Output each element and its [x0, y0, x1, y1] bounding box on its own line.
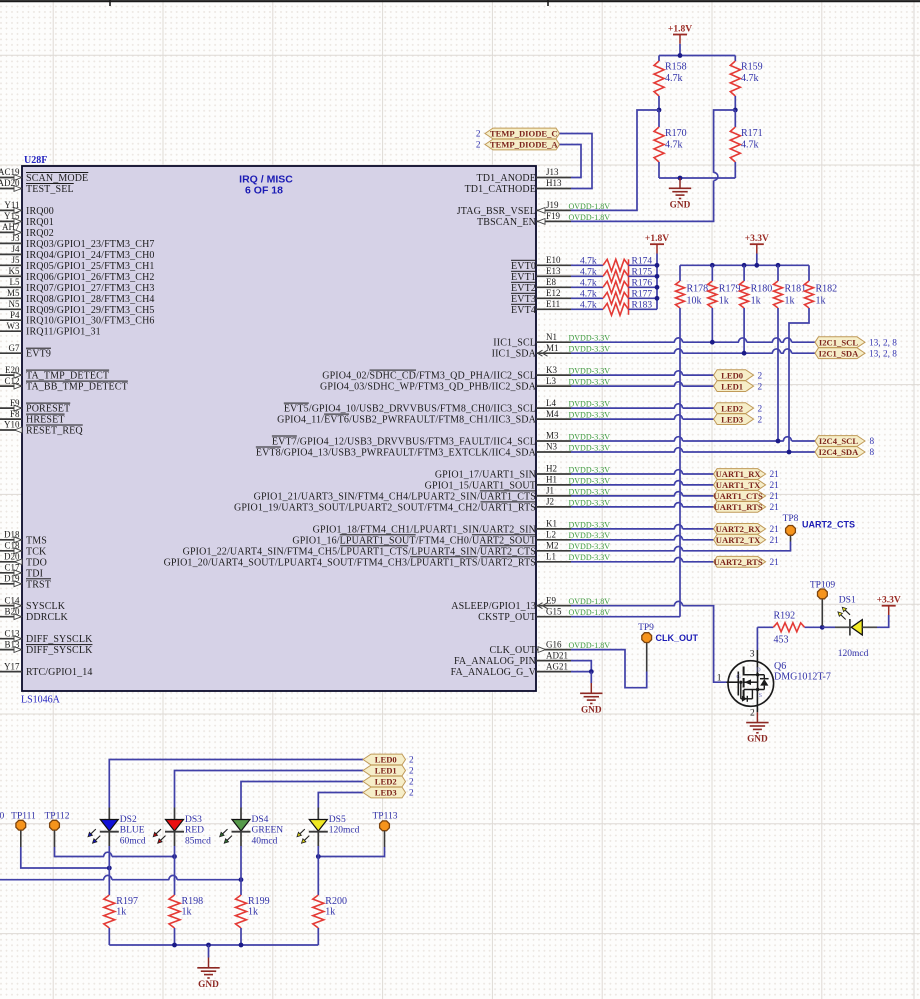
transistor Q6 DMG1012T-7 [717, 661, 831, 707]
svg-text:120mcd: 120mcd [329, 826, 360, 836]
test point TP9 [638, 623, 698, 643]
svg-text:J2: J2 [546, 497, 554, 507]
pin M3 EVT7/GPIO4_12/USB3_DRVVBUS/FTM3_FAULT/IIC4_SCL (right) [272, 431, 610, 448]
node R159/R171 junction [733, 108, 738, 113]
svg-text:EVT3: EVT3 [511, 294, 536, 305]
port I2C1_SCL [815, 337, 897, 349]
svg-text:D20: D20 [4, 552, 20, 562]
pin J4 IRQ04/GPIO1_24/FTM3_CH0 (left) [0, 244, 155, 261]
svg-text:M5: M5 [7, 288, 20, 298]
svg-text:IIC1_SCL: IIC1_SCL [493, 338, 536, 349]
svg-text:13, 2, 8: 13, 2, 8 [869, 338, 897, 348]
svg-text:J19: J19 [546, 200, 559, 210]
IC block title IRQ / MISC [239, 174, 293, 197]
svg-text:1k: 1k [182, 907, 192, 918]
svg-text:DMG1012T-7: DMG1012T-7 [774, 672, 831, 683]
svg-text:LED3: LED3 [721, 414, 743, 424]
svg-text:DIFF_SYSCLK: DIFF_SYSCLK [26, 645, 93, 656]
LED DS5 120mcd [297, 808, 360, 847]
power +3.3V (DS1) [877, 596, 901, 616]
svg-text:M2: M2 [546, 541, 559, 551]
svg-text:DVDD-3.3V: DVDD-3.3V [569, 553, 611, 562]
pin B20 DDRCLK (left) [0, 606, 69, 623]
svg-text:H2: H2 [546, 464, 557, 474]
svg-text:21: 21 [770, 481, 780, 491]
svg-text:F8: F8 [10, 409, 20, 419]
LED DS3 RED [153, 808, 211, 847]
svg-text:TBSCAN_EN: TBSCAN_EN [477, 217, 536, 228]
wire+port UART2_RX [571, 524, 779, 536]
svg-text:DVDD-3.3V: DVDD-3.3V [569, 476, 611, 485]
svg-text:FA_ANALOG_PIN: FA_ANALOG_PIN [454, 656, 536, 667]
test point TP112 [45, 812, 70, 848]
svg-text:DS5: DS5 [329, 815, 346, 825]
svg-text:R182: R182 [816, 284, 838, 295]
svg-text:LED0: LED0 [721, 370, 743, 380]
pin M2 GPIO1_22/UART4_SIN/FTM4_CH5/LPUART1_CTS/LPUART4_SIN/UART2_CTS (right) [183, 541, 611, 558]
wire LED bottom rail [109, 944, 318, 946]
svg-text:R176: R176 [632, 279, 653, 289]
svg-text:IRQ03/GPIO1_23/FTM3_CH7: IRQ03/GPIO1_23/FTM3_CH7 [26, 239, 155, 250]
node DS2/TP111 junction [107, 866, 112, 871]
svg-text:IIC1_SDA: IIC1_SDA [492, 349, 537, 360]
svg-text:8: 8 [870, 437, 875, 447]
svg-text:TMS: TMS [26, 535, 47, 546]
wire divider bottom rail [659, 177, 735, 179]
svg-text:E10: E10 [546, 255, 561, 265]
svg-text:UART1_TX: UART1_TX [716, 480, 761, 490]
svg-text:21: 21 [770, 558, 780, 568]
svg-text:DVDD-3.3V: DVDD-3.3V [569, 487, 611, 496]
svg-text:DVDD-3.3V: DVDD-3.3V [569, 520, 611, 529]
svg-text:J13: J13 [546, 167, 559, 177]
svg-text:EVT4: EVT4 [511, 305, 536, 316]
svg-text:85mcd: 85mcd [185, 837, 211, 847]
svg-text:GND: GND [198, 980, 219, 990]
svg-text:GPIO1_20/UART4_SOUT/LPUART4_SO: GPIO1_20/UART4_SOUT/LPUART4_SOUT/FTM4_CH… [164, 557, 536, 568]
svg-text:R181: R181 [785, 284, 807, 295]
pin G15 CKSTP_OUT (right) [478, 606, 610, 623]
svg-text:L1: L1 [546, 552, 556, 562]
pin K3 GPIO4_02/SDHC_CD/FTM3_QD_PHA/IIC2_SCL (right) [322, 365, 610, 382]
svg-text:E11: E11 [546, 299, 560, 309]
pin L4 EVT5/GPIO4_10/USB2_DRVVBUS/FTM8_CH0/IIC3_SCL (right) [284, 398, 610, 415]
svg-text:IRQ05/GPIO1_25/FTM3_CH1: IRQ05/GPIO1_25/FTM3_CH1 [26, 261, 155, 272]
test point TP109 [810, 581, 836, 627]
svg-text:GPIO1_15/UART1_SOUT: GPIO1_15/UART1_SOUT [425, 480, 536, 491]
pin H1 GPIO1_15/UART1_SOUT (right) [425, 475, 611, 492]
pin L1 GPIO1_20/UART4_SOUT/LPUART4_SOUT/FTM4_CH3/LPUART1_RTS/UART2_RTS (right) [164, 552, 611, 569]
svg-text:EVT2: EVT2 [511, 283, 536, 294]
pin P4 IRQ10/GPIO1_30/FTM3_CH6 (left) [0, 310, 155, 327]
wire+port LED1 (bottom) [175, 765, 415, 807]
wire FA_ANALOG to ground [590, 672, 592, 683]
svg-text:CKSTP_OUT: CKSTP_OUT [478, 612, 536, 623]
IC U28F body (LS1046A IRQ/MISC block) [22, 166, 536, 691]
svg-text:8: 8 [870, 448, 875, 458]
pin L2 GPIO1_16/LPUART1_SOUT/FTM4_CH0/UART2_SOUT (right) [292, 530, 610, 547]
svg-text:DVDD-3.3V: DVDD-3.3V [569, 465, 611, 474]
pin F8 HRESET (left) [0, 409, 65, 426]
svg-text:EVT0: EVT0 [511, 261, 536, 272]
wire+port LED1 (right) [571, 381, 763, 393]
node DS4 junction [239, 877, 244, 882]
wire DS1 anode to +3.3V [822, 615, 889, 627]
svg-text:4.7k: 4.7k [741, 140, 759, 151]
svg-text:2: 2 [476, 130, 481, 140]
wire+port LED0 (bottom) [109, 754, 414, 807]
svg-text:GPIO1_16/LPUART1_SOUT/FTM4_CH0: GPIO1_16/LPUART1_SOUT/FTM4_CH0/UART2_SOU… [292, 535, 536, 546]
svg-text:6 OF 18: 6 OF 18 [245, 185, 283, 197]
power +3.3V (I2C pullups) [745, 234, 769, 265]
wire CLK_OUT net [571, 643, 647, 688]
resistor R170 4.7k [654, 110, 687, 178]
svg-text:TP9: TP9 [638, 623, 654, 633]
svg-text:U28F: U28F [24, 155, 47, 166]
svg-text:K1: K1 [546, 519, 557, 529]
resistor R192 453 [757, 611, 822, 646]
pin M1 IIC1_SDA (right) [492, 343, 611, 360]
svg-text:TD1_CATHODE: TD1_CATHODE [465, 184, 536, 195]
wire Q6 source to ground [750, 690, 757, 719]
svg-text:DVDD-3.3V: DVDD-3.3V [569, 411, 611, 420]
svg-text:10k: 10k [687, 296, 702, 307]
svg-text:JTAG_BSR_VSEL: JTAG_BSR_VSEL [457, 206, 536, 217]
svg-text:CLK_OUT: CLK_OUT [656, 633, 699, 643]
svg-text:DVDD-3.3V: DVDD-3.3V [569, 378, 611, 387]
port I2C4_SCL [815, 436, 875, 448]
wire TP111 to DS2 cathode [21, 847, 110, 868]
svg-text:DVDD-3.3V: DVDD-3.3V [569, 334, 611, 343]
pin Y11 IRQ00 (left) [0, 200, 54, 217]
wire IIC4_SCL net [571, 437, 815, 444]
svg-text:I2C4_SDA: I2C4_SDA [819, 447, 859, 457]
pin D20 TDO (left) [0, 552, 47, 569]
svg-text:W3: W3 [7, 321, 20, 331]
svg-text:E12: E12 [546, 288, 561, 298]
power +1.8V (EVT pullups) [645, 234, 669, 309]
svg-text:L5: L5 [10, 277, 20, 287]
wire +3.3V bus [680, 264, 809, 266]
svg-text:IRQ02: IRQ02 [26, 228, 54, 239]
svg-text:L4: L4 [546, 398, 556, 408]
svg-text:R170: R170 [665, 128, 687, 139]
svg-text:J3: J3 [11, 233, 20, 243]
pin H2 GPIO1_17/UART1_SIN (right) [435, 464, 610, 481]
svg-text:R198: R198 [182, 896, 204, 907]
pin J19 JTAG_BSR_VSEL (right) [457, 200, 611, 217]
pin W3 IRQ11/GPIO1_31 (left) [0, 321, 101, 338]
svg-text:21: 21 [770, 492, 780, 502]
wire+port LED2 (right) [571, 403, 763, 415]
wire+port UART2_RTS [571, 556, 779, 568]
svg-text:TRST: TRST [26, 579, 51, 590]
wire+port LED2 (bottom) [241, 776, 414, 807]
svg-text:M4: M4 [546, 409, 559, 419]
svg-text:DVDD-3.3V: DVDD-3.3V [569, 400, 611, 409]
ground GND (Q6 source) [746, 712, 768, 744]
svg-text:R179: R179 [719, 284, 741, 295]
svg-text:2: 2 [758, 404, 763, 414]
svg-text:RESET_REQ: RESET_REQ [26, 426, 83, 437]
pin C12 TA_BB_TMP_DETECT (left) [0, 376, 128, 393]
resistor R177 4.7k (EVT3 pullup) [571, 290, 657, 305]
svg-text:OVDD-1.8V: OVDD-1.8V [569, 202, 611, 211]
svg-text:OVDD-1.8V: OVDD-1.8V [569, 213, 611, 222]
wire +1.8V rail to R158/R159 [659, 55, 735, 57]
svg-text:21: 21 [770, 536, 780, 546]
svg-text:GPIO1_19/UART3_SOUT/LPUART2_SO: GPIO1_19/UART3_SOUT/LPUART2_SOUT/FTM4_CH… [234, 502, 536, 513]
pin C18 TCK (left) [0, 541, 47, 558]
svg-text:R174: R174 [632, 257, 653, 267]
svg-text:H13: H13 [546, 178, 562, 188]
pin M4 GPIO4_11/EVT6/USB2_PWRFAULT/FTM8_CH1/IIC3_SDA (right) [277, 409, 610, 426]
wire FA_ANALOG_PIN jog [571, 661, 591, 672]
svg-text:IRQ06/GPIO1_26/FTM3_CH2: IRQ06/GPIO1_26/FTM3_CH2 [26, 272, 155, 283]
LED DS4 GREEN [220, 808, 284, 847]
svg-text:+3.3V: +3.3V [745, 234, 769, 244]
svg-text:SYSCLK: SYSCLK [26, 601, 66, 612]
wire+port UART1_TX [571, 480, 779, 492]
resistor R178 10k [676, 265, 709, 308]
ground GND (FA_ANALOG) [580, 683, 602, 715]
svg-text:G7: G7 [9, 343, 20, 353]
wire R179 to IIC1_SCL [711, 308, 713, 342]
svg-text:40mcd: 40mcd [252, 837, 278, 847]
svg-text:IRQ00: IRQ00 [26, 206, 54, 217]
ground GND (top divider) [669, 178, 691, 210]
svg-text:TD1_ANODE: TD1_ANODE [477, 173, 537, 184]
svg-text:4.7k: 4.7k [580, 268, 597, 278]
svg-text:G15: G15 [546, 606, 562, 616]
pin AH7 IRQ02 (left) [0, 222, 54, 239]
svg-text:M3: M3 [546, 431, 559, 441]
svg-text:1k: 1k [719, 296, 729, 307]
pin K1 GPIO1_18/FTM4_CH1/LPUART1_SIN/UART2_SIN (right) [313, 519, 611, 536]
svg-text:IRQ09/GPIO1_29/FTM3_CH5: IRQ09/GPIO1_29/FTM3_CH5 [26, 305, 155, 316]
wire off-sheet to DS4 cathode [0, 875, 241, 881]
svg-text:2: 2 [409, 778, 414, 788]
svg-text:2: 2 [750, 709, 755, 719]
wire R180 to IIC1_SDA [743, 308, 745, 353]
svg-text:K5: K5 [9, 266, 20, 276]
svg-text:L2: L2 [546, 530, 556, 540]
svg-text:GPIO4_02/SDHC_CD/FTM3_QD_PHA/I: GPIO4_02/SDHC_CD/FTM3_QD_PHA/IIC2_SCL [322, 371, 536, 382]
wire rail to ground [208, 945, 210, 958]
svg-text:4.7k: 4.7k [580, 290, 597, 300]
svg-text:DVDD-3.3V: DVDD-3.3V [569, 432, 611, 441]
svg-text:TP8: TP8 [783, 514, 799, 524]
svg-text:N3: N3 [546, 442, 557, 452]
svg-text:E8: E8 [546, 277, 556, 287]
wire+port UART1_RX [571, 469, 779, 481]
svg-text:+1.8V: +1.8V [645, 234, 669, 244]
svg-text:1k: 1k [116, 907, 126, 918]
svg-text:UART1_RTS: UART1_RTS [714, 502, 763, 512]
svg-text:1k: 1k [248, 907, 258, 918]
pin G16 CLK_OUT (right) [490, 639, 611, 656]
svg-text:1k: 1k [751, 296, 761, 307]
pin AD21 FA_ANALOG_PIN (right) [454, 650, 571, 667]
svg-text:GPIO1_17/UART1_SIN: GPIO1_17/UART1_SIN [435, 470, 536, 481]
wire ASLEEP/GPIO1_13 to Q6 gate [571, 601, 727, 682]
pin J3 IRQ03/GPIO1_23/FTM3_CH7 (left) [0, 233, 155, 250]
svg-text:F19: F19 [546, 211, 561, 221]
svg-text:GPIO1_22/UART4_SIN/FTM4_CH5/LP: GPIO1_22/UART4_SIN/FTM4_CH5/LPUART1_CTS/… [183, 546, 536, 557]
wire R181 to IIC4_SCL [777, 308, 779, 441]
svg-text:UART2_RTS: UART2_RTS [714, 557, 763, 567]
svg-text:4.7k: 4.7k [665, 140, 683, 151]
svg-text:AG21: AG21 [546, 661, 568, 671]
svg-text:DS3: DS3 [185, 815, 202, 825]
svg-text:TEST_SEL: TEST_SEL [26, 184, 74, 195]
resistor R158 4.7k [654, 56, 687, 111]
svg-text:4.7k: 4.7k [580, 279, 597, 289]
svg-text:RED: RED [185, 826, 204, 836]
sheet border top edge [0, 0, 920, 6]
svg-text:R192: R192 [774, 611, 796, 622]
svg-text:GPIO1_21/UART3_SIN/FTM4_CH4/LP: GPIO1_21/UART3_SIN/FTM4_CH4/LPUART2_SIN/… [254, 491, 536, 502]
svg-text:TP111: TP111 [11, 812, 36, 822]
svg-text:J1: J1 [546, 486, 554, 496]
pin K5 IRQ06/GPIO1_26/FTM3_CH2 (left) [0, 266, 155, 283]
pin F9 PORESET (left) [0, 398, 70, 415]
wire TEMP_DIODE_C to TD1_CATHODE [560, 134, 593, 189]
pin AC19 SCAN_MODE (left) [0, 167, 88, 184]
svg-text:Y10: Y10 [4, 420, 20, 430]
svg-text:OVDD-1.8V: OVDD-1.8V [569, 641, 611, 650]
svg-text:DVDD-3.3V: DVDD-3.3V [569, 531, 611, 540]
svg-text:R199: R199 [248, 896, 270, 907]
resistor R176 4.7k (EVT2 pullup) [571, 279, 657, 294]
wire JTAG_BSR_VSEL to divider [571, 110, 659, 210]
svg-text:TP110: TP110 [0, 812, 4, 822]
pin Y10 RESET_REQ (left) [0, 420, 83, 437]
svg-text:R197: R197 [116, 896, 138, 907]
svg-text:R177: R177 [632, 290, 653, 300]
pin Y17 RTC/GPIO1_14 (left) [0, 661, 93, 678]
resistor R179 1k [708, 265, 741, 308]
pin L5 IRQ07/GPIO1_27/FTM3_CH3 (left) [0, 277, 155, 294]
svg-text:TA_BB_TMP_DETECT: TA_BB_TMP_DETECT [26, 382, 128, 393]
svg-text:I2C1_SDA: I2C1_SDA [819, 348, 859, 358]
svg-text:E13: E13 [546, 266, 561, 276]
wire R178 to CKSTP_OUT (G15) [571, 308, 680, 617]
node DS3/TP112 junction [172, 854, 177, 859]
svg-text:4.7k: 4.7k [665, 73, 683, 84]
pin Y15 IRQ01 (left) [0, 211, 54, 228]
svg-text:60mcd: 60mcd [120, 837, 146, 847]
wire Q6 drain riser [750, 627, 758, 675]
svg-text:E9: E9 [546, 595, 556, 605]
svg-text:2: 2 [758, 415, 763, 425]
svg-text:21: 21 [770, 503, 780, 513]
svg-text:TA_TMP_DETECT: TA_TMP_DETECT [26, 371, 109, 382]
svg-text:21: 21 [770, 470, 780, 480]
svg-text:DS2: DS2 [120, 815, 137, 825]
svg-text:21: 21 [770, 525, 780, 535]
svg-text:R180: R180 [751, 284, 773, 295]
pin D18 TMS (left) [0, 530, 47, 547]
svg-text:M1: M1 [546, 343, 559, 353]
svg-text:S: S [759, 692, 763, 699]
power +1.8V (top divider) [668, 24, 692, 55]
svg-text:H1: H1 [546, 475, 557, 485]
node DS5/TP113 junction [316, 854, 321, 859]
node rail junctions [172, 943, 243, 948]
wire TEMP_DIODE_A to TD1_ANODE [560, 145, 582, 178]
wire TP112 to DS3 cathode [55, 847, 175, 858]
pin E13 EVT1 (right) [511, 266, 571, 283]
pin E9 ASLEEP/GPIO1_13 (right) [451, 595, 610, 612]
svg-text:LED2: LED2 [375, 777, 397, 787]
svg-text:LED2: LED2 [721, 403, 743, 413]
pin N5 IRQ09/GPIO1_29/FTM3_CH5 (left) [0, 299, 155, 316]
svg-text:1k: 1k [816, 296, 826, 307]
svg-text:BLUE: BLUE [120, 826, 145, 836]
svg-text:2: 2 [409, 789, 414, 799]
svg-text:1: 1 [717, 673, 722, 683]
svg-text:LED1: LED1 [721, 381, 743, 391]
pin G7 EVT9 (left) [0, 343, 51, 360]
pin J5 IRQ05/GPIO1_25/FTM3_CH1 (left) [0, 255, 155, 272]
resistor R174 4.7k (EVT0 pullup) [571, 257, 657, 272]
svg-text:LS1046A: LS1046A [21, 695, 61, 706]
svg-text:+1.8V: +1.8V [668, 24, 692, 34]
test point TP111 [11, 812, 36, 848]
svg-text:TEMP_DIODE_C: TEMP_DIODE_C [490, 129, 558, 139]
svg-text:TDI: TDI [26, 568, 43, 579]
resistor R182 1k [805, 265, 838, 308]
port I2C1_SDA [815, 348, 897, 360]
svg-text:TDO: TDO [26, 557, 47, 568]
svg-text:DIFF_SYSCLK: DIFF_SYSCLK [26, 634, 93, 645]
resistor R175 4.7k (EVT1 pullup) [571, 268, 657, 283]
node +3.3V bus junctions [710, 263, 781, 268]
svg-text:I2C1_SCL: I2C1_SCL [819, 337, 858, 347]
svg-text:IRQ08/GPIO1_28/FTM3_CH4: IRQ08/GPIO1_28/FTM3_CH4 [26, 294, 155, 305]
LED DS1 yellow 120mcd [835, 596, 877, 660]
wire IIC4_SDA net [571, 448, 815, 455]
pin AD20 TEST_SEL (left) [0, 178, 74, 195]
svg-text:R200: R200 [325, 896, 347, 907]
svg-text:2: 2 [409, 756, 414, 766]
pin E10 EVT0 (right) [511, 255, 571, 272]
node junction +1.8V rail [678, 53, 683, 58]
svg-text:J4: J4 [11, 244, 20, 254]
wire TBSCAN_EN to divider [571, 110, 735, 221]
pin C13 DIFF_SYSCLK (left) [0, 628, 93, 645]
svg-text:LED3: LED3 [375, 788, 397, 798]
node FA_ANALOG junction [589, 669, 594, 674]
node divider bottom junction [678, 176, 683, 181]
svg-text:DVDD-3.3V: DVDD-3.3V [569, 542, 611, 551]
resistor R197 1k [104, 846, 138, 945]
svg-text:LED0: LED0 [375, 755, 397, 765]
svg-text:DVDD-3.3V: DVDD-3.3V [569, 345, 611, 354]
wire+port LED3 (bottom) [318, 787, 414, 807]
pin M5 IRQ08/GPIO1_28/FTM3_CH4 (left) [0, 288, 155, 305]
svg-text:4.7k: 4.7k [580, 301, 597, 311]
pin H13 TD1_CATHODE (right) [465, 178, 571, 195]
svg-text:SCAN_MODE: SCAN_MODE [26, 173, 88, 184]
svg-text:IRQ04/GPIO1_24/FTM3_CH0: IRQ04/GPIO1_24/FTM3_CH0 [26, 250, 155, 261]
pin E20 TA_TMP_DETECT (left) [0, 365, 109, 382]
test point TP8 [783, 514, 855, 535]
node R192/TP109/DS1 junction [820, 625, 825, 630]
svg-text:G: G [736, 674, 741, 681]
svg-text:+3.3V: +3.3V [877, 596, 901, 606]
